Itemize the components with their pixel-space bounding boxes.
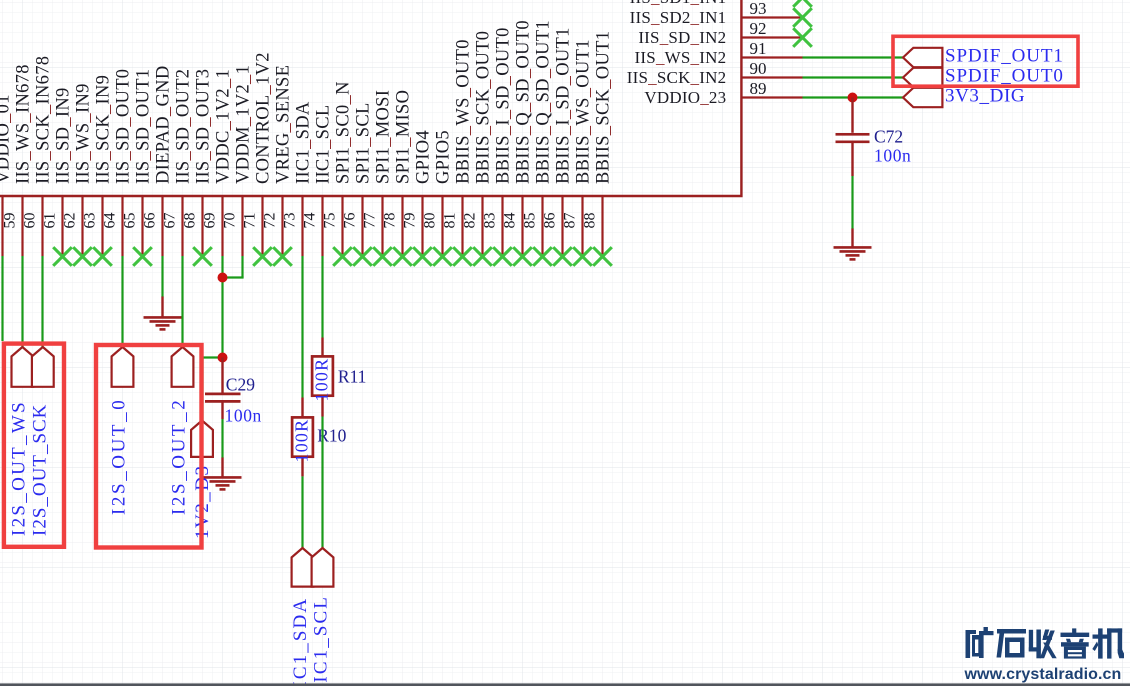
svg-text:59: 59 [2,213,19,229]
pin 76 SPI1_SC0_N [333,81,358,256]
svg-text:IIS_SD1_IN1: IIS_SD1_IN1 [630,0,727,7]
label IIC1_SDA [290,597,311,686]
pin 62 IIS_SD_IN9 [53,87,78,256]
no-connect X pin 88 [573,247,592,266]
svg-text:SPI1_SCL: SPI1_SCL [353,102,373,184]
svg-text:IIC1_SDA: IIC1_SDA [293,101,313,184]
no-connect X pin 85 [513,247,532,266]
highlight box around I2S_OUT_WS/SCK ports [4,344,64,547]
port I2S_OUT_2 [172,347,194,387]
label I2S_OUT_2 [169,398,190,515]
pin 87 BBIIS_I_SD_OUT1 [553,27,578,256]
svg-text:C72: C72 [874,127,903,147]
highlight box around SPDIF ports [893,36,1078,86]
svg-text:65: 65 [122,213,139,229]
svg-text:IIS_SD_IN2: IIS_SD_IN2 [638,28,726,47]
no-connect X pin 87 [553,247,572,266]
svg-text:IIC1_SCL: IIC1_SCL [313,104,333,184]
svg-text:C29: C29 [226,375,255,395]
pin 75 IIC1_SCL [313,104,338,256]
no-connect X pin 64 [93,247,112,266]
wire R11 to port IIC1_SCL [321,417,323,549]
svg-text:IIC1_SCL: IIC1_SCL [310,595,331,686]
wire R10 to port IIC1_SDA [301,476,303,548]
svg-text:R11: R11 [338,367,367,387]
label I2S_OUT_WS [8,400,29,536]
wire pin71 VDDM_1V2_1 jog to node [222,256,244,278]
label SPDIF_OUT0 [945,66,1064,87]
svg-text:61: 61 [42,213,59,229]
pin 71 VDDM_1V2_1 [233,65,258,256]
svg-text:100n: 100n [874,146,911,166]
svg-text:74: 74 [302,213,319,229]
wire pin67 DIEPAD_GND to ground [161,256,163,297]
svg-text:70: 70 [222,213,239,229]
no-connect X pin 83 [473,247,492,266]
sheet border (bottom edge) [0,683,1130,686]
wire node to 1V2_D3 branch [202,358,223,421]
ground GND3 (under C72) [834,229,872,260]
svg-text:75: 75 [322,213,339,229]
svg-text:SPI1_MOSI: SPI1_MOSI [373,90,393,184]
watermark url www.crystalradio.cn [964,666,1122,683]
svg-text:CONTROL_1V2: CONTROL_1V2 [253,52,273,184]
svg-text:IIS_SCK_IN2: IIS_SCK_IN2 [627,68,727,87]
label C29 [226,375,255,395]
label I2S_OUT_SCK [30,404,51,536]
svg-text:3V3_DIG: 3V3_DIG [945,86,1025,107]
pin 84 BBIIS_I_SD_OUT0 [493,27,518,256]
svg-text:100R: 100R [311,358,331,402]
label IIC1_SCL [310,595,331,686]
svg-text:81: 81 [442,213,459,229]
capacitor C72 [836,98,870,177]
svg-text:VDDM_1V2_1: VDDM_1V2_1 [233,65,253,184]
resistor R11 [311,338,333,417]
wire pin59 to I2S area [1,256,3,341]
svg-text:IIC1_SDA: IIC1_SDA [290,597,311,686]
pin 67 DIEPAD_GND [153,66,178,256]
pin 60 IIS_WS_IN678 [13,64,38,256]
pin 90 IIS_SCK_IN2 [627,59,803,87]
wire pin68 to port I2S_OUT_2 [181,256,183,347]
pin 81 GPIO5 [433,130,458,256]
svg-text:73: 73 [282,213,299,229]
svg-text:IIS_SD2_IN1: IIS_SD2_IN1 [630,8,727,27]
svg-text:VDDIO_23: VDDIO_23 [644,88,726,107]
svg-text:IIS_SD_OUT1: IIS_SD_OUT1 [133,69,153,184]
highlight box around I2S_OUT_0/2 ports [96,345,202,548]
pin 61 IIS_SCK_IN678 [33,56,58,256]
pin 72 CONTROL_1V2 [253,52,278,256]
label I2S_OUT_0 [109,398,130,515]
port 3V3_DIG [903,88,942,107]
pin 89 VDDIO_23 [644,79,802,107]
label R11 [338,367,367,387]
wire pin74 IIC1_SDA to R10 [301,256,303,398]
svg-text:IIS_SCK_IN9: IIS_SCK_IN9 [93,75,113,184]
svg-text:IIS_SD_OUT0: IIS_SD_OUT0 [113,69,133,184]
svg-text:84: 84 [502,213,519,229]
port IIC1_SCL [312,548,334,587]
pin 77 SPI1_SCL [353,102,378,256]
wire pin91 to port SPDIF_OUT1 [803,56,904,58]
pin 63 IIS_WS_IN9 [73,83,98,256]
pin 66 IIS_SD_OUT1 [133,69,158,256]
junction node 3V3_DIG/C72 [848,93,858,103]
pin 82 BBIIS_WS_OUT0 [453,39,478,256]
svg-text:BBIIS_I_SD_OUT1: BBIIS_I_SD_OUT1 [553,27,573,184]
svg-text:100n: 100n [225,406,262,426]
port 1V2_D3 [191,421,213,457]
svg-text:IIS_SD_OUT2: IIS_SD_OUT2 [173,69,193,184]
svg-text:GPIO5: GPIO5 [433,130,453,184]
pin 85 BBIIS_Q_SD_OUT0 [513,20,538,256]
svg-text:72: 72 [262,213,279,229]
junction node C29/1V2_D3 [218,353,228,363]
svg-text:I2S_OUT_WS: I2S_OUT_WS [8,400,29,536]
svg-text:SPI1_SC0_N: SPI1_SC0_N [333,81,353,184]
no-connect X pin 84 [493,247,512,266]
wire pin65 to port I2S_OUT_0 [121,256,123,347]
svg-text:I2S_OUT_SCK: I2S_OUT_SCK [30,404,51,536]
svg-text:67: 67 [162,213,179,229]
pin 86 BBIIS_Q_SD_OUT1 [533,20,558,256]
no-connect X pin 82 [453,247,472,266]
no-connect X pin 63 [73,247,92,266]
svg-text:SPI1_MISO: SPI1_MISO [393,90,413,184]
svg-text:VDDC_1V2_1: VDDC_1V2_1 [213,69,233,184]
svg-text:77: 77 [362,213,379,229]
pin BBIIS_SCK_OUT1 [593,31,613,256]
port IIC1_SDA [292,548,314,587]
pin 88 BBIIS_WS_OUT1 [573,39,598,256]
svg-text:BBIIS_WS_OUT1: BBIIS_WS_OUT1 [573,39,593,184]
svg-text:79: 79 [402,213,419,229]
IC U1 body outline (bottom and right edges) [0,0,741,196]
svg-text:78: 78 [382,213,399,229]
svg-text:BBIIS_Q_SD_OUT0: BBIIS_Q_SD_OUT0 [513,20,533,184]
svg-text:71: 71 [242,213,259,229]
ground GND2 (under C29) [204,458,242,490]
pin 69 IIS_SD_OUT3 [193,69,218,256]
svg-text:66: 66 [142,213,159,229]
svg-text:GPIO4: GPIO4 [413,130,433,184]
port SPDIF_OUT1 [903,48,942,67]
svg-text:BBIIS_SCK_OUT0: BBIIS_SCK_OUT0 [473,31,493,184]
svg-text:83: 83 [482,213,499,229]
no-connect X pin 72 [253,247,272,266]
no-connect X pin 81 [433,247,452,266]
svg-text:VREG_SENSE: VREG_SENSE [273,65,293,184]
wire pin70 VDDC_1V2_1 down to C29 [221,256,223,358]
svg-text:DIEPAD_GND: DIEPAD_GND [153,66,173,184]
svg-text:82: 82 [462,213,479,229]
pin 93 IIS_SD2_IN1 [630,0,803,27]
no-connect X pin 76 [333,247,352,266]
svg-text:BBIIS_Q_SD_OUT1: BBIIS_Q_SD_OUT1 [533,20,553,184]
svg-text:93: 93 [750,0,767,18]
wire pin60 to port I2S_OUT_WS [21,256,23,347]
svg-text:76: 76 [342,213,359,229]
port I2S_OUT_SCK [32,347,54,387]
label 3V3_DIG [945,86,1025,107]
pin 91 IIS_WS_IN2 [635,39,803,67]
svg-text:60: 60 [22,213,39,229]
port I2S_OUT_WS [12,347,34,387]
pin 65 IIS_SD_OUT0 [113,69,138,256]
svg-text:BBIIS_WS_OUT0: BBIIS_WS_OUT0 [453,39,473,184]
pin 59 VDDIO_01 [0,94,19,256]
svg-text:BBIIS_SCK_OUT1: BBIIS_SCK_OUT1 [593,31,613,184]
ground GND1 (DIEPAD_GND) [144,297,182,330]
watermark logo 矿石收音机 [966,627,1125,659]
no-connect X pin BBIIS_SCK_OUT1 [593,247,612,266]
pin 68 IIS_SD_OUT2 [173,69,198,256]
label 1V2_D3 [192,465,213,539]
wire pin89 to port 3V3_DIG [803,96,904,98]
pin 74 IIC1_SDA [293,101,318,256]
label SPDIF_OUT1 [945,46,1064,67]
svg-text:www.crystalradio.cn: www.crystalradio.cn [964,666,1122,683]
svg-text:90: 90 [750,59,767,78]
pin 73 VREG_SENSE [273,65,298,256]
svg-text:64: 64 [102,213,119,229]
svg-text:100R: 100R [291,419,311,463]
svg-text:SPDIF_OUT1: SPDIF_OUT1 [945,46,1064,67]
svg-text:IIS_WS_IN2: IIS_WS_IN2 [635,48,727,67]
svg-text:IIS_SCK_IN678: IIS_SCK_IN678 [33,56,53,184]
pin 78 SPI1_MOSI [373,90,398,256]
wire pin90 to port SPDIF_OUT0 [803,76,904,78]
no-connect X pin 77 [353,247,372,266]
svg-text:80: 80 [422,213,439,229]
label R10 [317,426,346,446]
no-connect X pin 66 [133,247,152,266]
no-connect X pin 92 [793,28,812,47]
svg-text:92: 92 [750,19,767,38]
svg-text:SPDIF_OUT0: SPDIF_OUT0 [945,66,1064,87]
wire pin75 IIC1_SCL to R11 [321,256,323,338]
no-connect X pin 73 [273,247,292,266]
no-connect X pin 94 [793,0,812,7]
port I2S_OUT_0 [112,347,134,387]
label C72 [874,127,903,147]
svg-text:62: 62 [62,213,79,229]
no-connect X pin 78 [373,247,392,266]
svg-text:69: 69 [202,213,219,229]
svg-text:I2S_OUT_2: I2S_OUT_2 [169,398,190,515]
pin 79 SPI1_MISO [393,90,418,256]
capacitor C29 [205,358,241,420]
pin 94 IIS_SD1_IN1 [630,0,803,7]
pin 83 BBIIS_SCK_OUT0 [473,31,498,256]
svg-text:88: 88 [582,213,599,229]
no-connect X pin 93 [793,8,812,27]
value 100n (C29) [225,406,262,426]
resistor R10 [291,398,313,477]
svg-text:IIS_WS_IN678: IIS_WS_IN678 [13,64,33,184]
svg-text:68: 68 [182,213,199,229]
pin 70 VDDC_1V2_1 [213,69,238,256]
svg-text:VDDIO_01: VDDIO_01 [0,94,13,184]
no-connect X pin 79 [393,247,412,266]
svg-text:87: 87 [562,213,579,229]
no-connect X pin 62 [53,247,72,266]
svg-text:IIS_SD_IN9: IIS_SD_IN9 [53,87,73,184]
junction node 1V2 (pins 70/71) [218,273,228,283]
svg-text:BBIIS_I_SD_OUT0: BBIIS_I_SD_OUT0 [493,27,513,184]
no-connect X pin 86 [533,247,552,266]
svg-text:IIS_WS_IN9: IIS_WS_IN9 [73,83,93,184]
no-connect X pin 69 [193,247,212,266]
pin 92 IIS_SD_IN2 [638,19,802,47]
svg-text:91: 91 [750,39,767,58]
svg-text:63: 63 [82,213,99,229]
svg-text:IIS_SD_OUT3: IIS_SD_OUT3 [193,69,213,184]
svg-text:86: 86 [542,213,559,229]
pin 64 IIS_SCK_IN9 [93,75,118,256]
wire C29 to ground [221,419,223,458]
wire C72 to ground [851,176,853,229]
no-connect X pin 80 [413,247,432,266]
value 100n (C72) [874,146,911,166]
svg-text:89: 89 [750,79,767,98]
svg-text:85: 85 [522,213,539,229]
svg-text:I2S_OUT_0: I2S_OUT_0 [109,398,130,515]
pin 80 GPIO4 [413,130,438,256]
wire pin61 to port I2S_OUT_SCK [41,256,43,347]
port SPDIF_OUT0 [903,68,942,87]
